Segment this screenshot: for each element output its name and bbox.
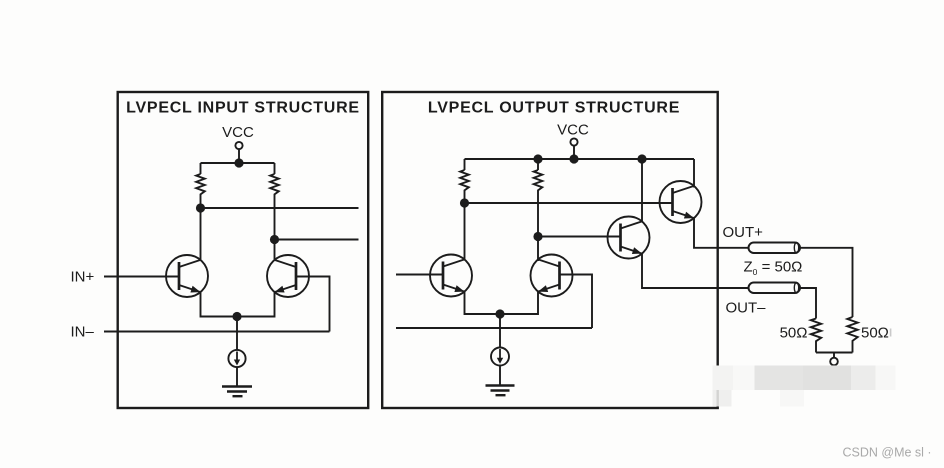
wire stub output A (left panel) xyxy=(201,207,359,209)
right panel box frame xyxy=(382,92,718,408)
transistor Q6 xyxy=(660,181,702,223)
current source I2 xyxy=(491,348,509,366)
svg-text:OUT+: OUT+ xyxy=(723,224,764,241)
wire Q5 emitter to OUT- line xyxy=(642,254,749,288)
svg-text:LVPECL INPUT STRUCTURE: LVPECL INPUT STRUCTURE xyxy=(126,100,360,117)
wire Q1 emitter xyxy=(201,292,275,316)
wire input stub upper (right panel) xyxy=(396,274,443,276)
svg-text:OUT–: OUT– xyxy=(726,300,767,317)
wire IN+ xyxy=(104,276,179,278)
transmission line T2 (OUT-) xyxy=(749,283,801,294)
ground (right) xyxy=(486,386,515,396)
wire R4 node to Q5 base xyxy=(538,236,621,238)
current source I1 xyxy=(228,350,245,367)
node rail junction above Q5 collector xyxy=(637,154,646,163)
transmission line T1 (OUT+) xyxy=(749,243,801,254)
transistor Q2 xyxy=(267,255,309,297)
wire current source to ground (left) xyxy=(236,367,238,386)
svg-text:Z0 = 50Ω: Z0 = 50Ω xyxy=(744,259,803,278)
wire T1 to termination xyxy=(800,248,853,317)
wire top rail (right) xyxy=(465,158,695,160)
svg-text:IN–: IN– xyxy=(71,324,95,341)
transistor Q4 xyxy=(531,255,573,297)
svg-text:50Ω: 50Ω xyxy=(861,325,889,342)
VCC terminal circle (right) xyxy=(570,138,577,145)
node VCC rail junction (left) xyxy=(234,158,243,167)
node VCC rail junction (right) xyxy=(569,154,578,163)
left panel box frame xyxy=(118,92,369,408)
node R4 bottom junction xyxy=(533,232,542,241)
wire Q6 emitter to OUT+ line xyxy=(694,218,749,248)
transistor Q5 xyxy=(608,217,650,259)
wire Q3 emitter xyxy=(465,292,539,314)
svg-text:LVPECL OUTPUT STRUCTURE: LVPECL OUTPUT STRUCTURE xyxy=(428,100,680,117)
node R3 bottom junction xyxy=(460,198,469,207)
resistor R5 (50 ohm left) xyxy=(811,319,821,353)
wire Q4 base link xyxy=(560,275,593,329)
wire R3 node to Q6 base xyxy=(465,202,673,204)
wire tail to current source (left) xyxy=(236,317,238,351)
svg-text:VCC: VCC xyxy=(222,124,254,141)
wire Q2 collector xyxy=(274,240,276,262)
partial clipped character after 50 ohm right xyxy=(890,329,892,337)
wire T2 to termination xyxy=(800,288,816,319)
watermark blur blocks xyxy=(713,366,896,407)
transistor Q3 xyxy=(430,255,472,297)
svg-text:IN+: IN+ xyxy=(71,269,95,286)
wire input stub lower (right panel) xyxy=(396,327,592,329)
wire Q4 collector xyxy=(537,237,539,262)
node R1 bottom junction xyxy=(196,203,205,212)
wire IN- xyxy=(104,331,330,333)
wire Q3 collector xyxy=(464,203,466,261)
wire stub output B (left panel) xyxy=(275,239,359,241)
wire Q2 base link xyxy=(296,277,330,332)
wire top rail (left) xyxy=(201,162,275,164)
wire Q5 collector xyxy=(641,159,643,223)
svg-text:50Ω: 50Ω xyxy=(780,325,808,342)
wire VCC stub (left) xyxy=(238,149,240,163)
resistor R2 xyxy=(270,163,279,240)
resistor R3 xyxy=(460,159,469,203)
VCC terminal circle (left) xyxy=(235,142,242,149)
node R2 bottom junction xyxy=(270,235,279,244)
node rail junction above R4 xyxy=(533,154,542,163)
wire termination bottom xyxy=(816,352,853,354)
node emitter tail junction (right) xyxy=(495,309,504,318)
svg-text:VCC: VCC xyxy=(557,122,589,139)
node emitter tail junction (left) xyxy=(232,312,241,321)
wire current source to ground (right) xyxy=(499,366,501,386)
VTT terminal circle xyxy=(830,358,838,366)
resistor R4 xyxy=(534,159,543,237)
wire Q1 collector xyxy=(200,208,202,261)
transistor Q1 xyxy=(166,255,208,297)
ground (left) xyxy=(222,387,252,397)
wire VTT stub xyxy=(833,353,835,359)
svg-text:CSDN @Me sl ·: CSDN @Me sl · xyxy=(843,446,932,460)
resistor R6 (50 ohm right) xyxy=(847,317,857,353)
wire tail to current source (right) xyxy=(499,314,501,348)
resistor R1 xyxy=(196,163,205,208)
wire Q6 collector from rail corner xyxy=(693,159,695,188)
wire VCC stub (right) xyxy=(573,146,575,159)
